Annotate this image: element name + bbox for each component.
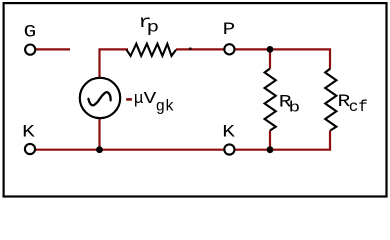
junction dot at Rb bottom bbox=[267, 146, 274, 153]
wire P terminal to right corner, down to Rcf bbox=[235, 49, 331, 68]
terminal P circle bbox=[224, 44, 234, 54]
junction dot at Rb top bbox=[267, 46, 274, 53]
voltage source sine wave bbox=[88, 92, 110, 105]
terminal K left circle bbox=[25, 144, 35, 154]
wire G stub bbox=[36, 48, 71, 50]
svg-text:cf: cf bbox=[349, 98, 368, 116]
resistor rp bbox=[127, 44, 177, 56]
wire rp right to P terminal bbox=[176, 48, 224, 50]
controlled source U1 (-uVgk) circle bbox=[80, 78, 120, 118]
svg-text:p: p bbox=[147, 19, 160, 37]
wire bottom right: mid K terminal to Rcf bottom bbox=[235, 131, 331, 150]
svg-text:μ: μ bbox=[134, 89, 144, 108]
wire source bottom lead bbox=[98, 118, 100, 150]
svg-text:b: b bbox=[289, 100, 301, 116]
resistor Rb bbox=[265, 69, 276, 131]
wire Rb bottom stub bbox=[269, 131, 271, 150]
terminal K mid circle bbox=[224, 144, 234, 154]
wire bottom left: K terminal to mid K terminal bbox=[36, 149, 225, 151]
svg-text:K: K bbox=[222, 122, 235, 142]
svg-text:K: K bbox=[22, 122, 35, 142]
wire top: corner to rp left bbox=[100, 49, 129, 78]
wire artifact tick on top wire bbox=[189, 48, 192, 50]
wire Rb top stub bbox=[269, 49, 271, 68]
svg-text:G: G bbox=[24, 22, 37, 42]
label -uVgk: minus sign bbox=[126, 98, 132, 101]
resistor Rcf bbox=[325, 69, 336, 131]
svg-text:P: P bbox=[223, 20, 236, 40]
svg-text:V: V bbox=[144, 89, 157, 108]
terminal G circle bbox=[25, 45, 35, 55]
svg-text:gk: gk bbox=[156, 98, 175, 116]
junction dot at source/bottom wire bbox=[96, 146, 103, 153]
